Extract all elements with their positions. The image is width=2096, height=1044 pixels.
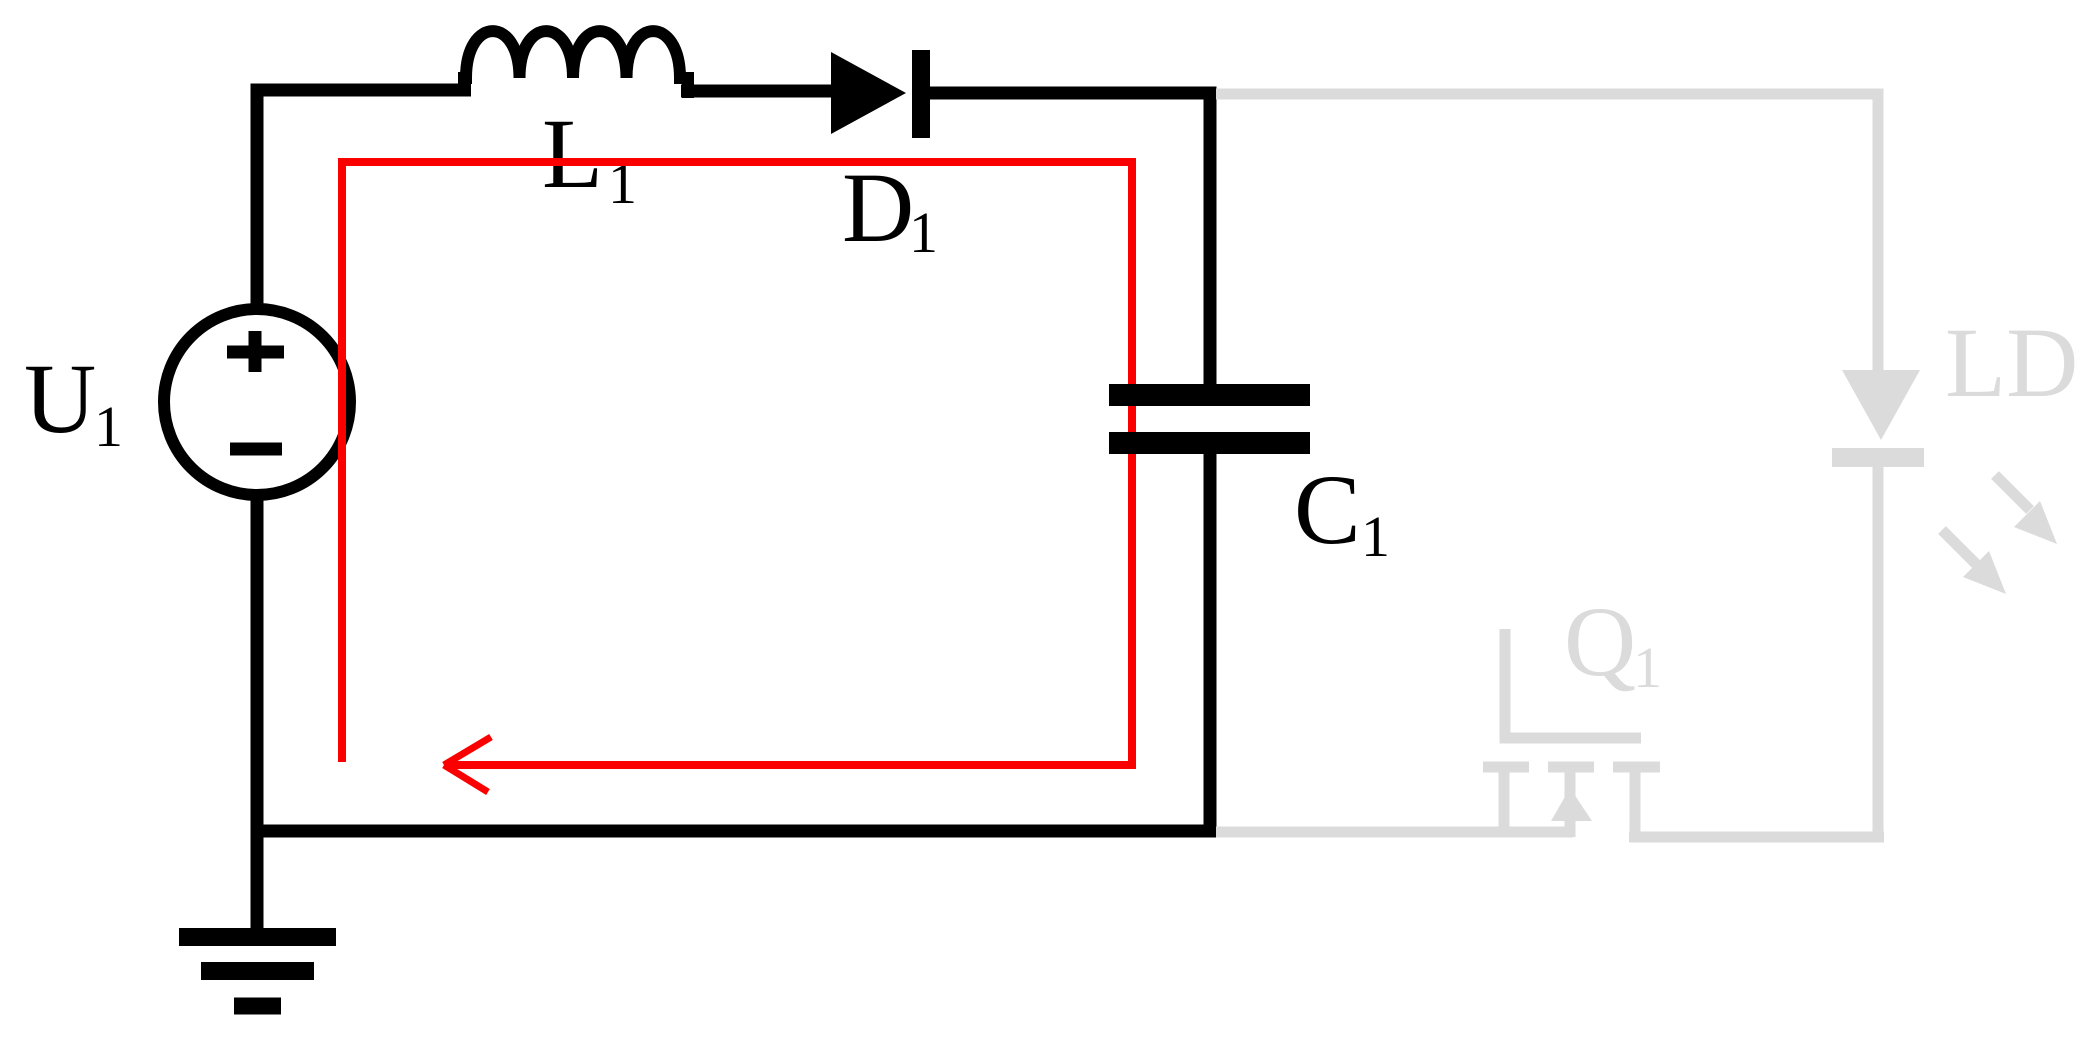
wire [251, 492, 264, 937]
transistor Q1 [1483, 629, 1660, 841]
wire [1216, 94, 1878, 371]
label C1 [1294, 454, 1390, 569]
svg-text:D: D [842, 152, 914, 263]
svg-text:1: 1 [94, 394, 123, 459]
wire [1873, 467, 1884, 842]
current loop [342, 162, 1132, 792]
voltage source U1 [164, 309, 350, 495]
wire [681, 85, 834, 98]
wire [928, 93, 1210, 390]
wire [257, 90, 471, 312]
svg-text:C: C [1294, 454, 1361, 565]
diode D1 [831, 50, 930, 138]
ground [179, 937, 336, 1006]
svg-text:U: U [24, 343, 96, 454]
svg-text:1: 1 [1633, 635, 1662, 700]
wire [1216, 827, 1573, 838]
label Q1 [1564, 586, 1662, 700]
svg-text:Q: Q [1564, 586, 1636, 697]
label U1 [24, 343, 123, 459]
svg-text:1: 1 [909, 200, 938, 265]
capacitor C1 [1109, 395, 1310, 443]
laser diode LD [1832, 370, 1924, 467]
svg-text:1: 1 [1361, 504, 1390, 569]
label D1 [842, 152, 938, 265]
label L1 [542, 98, 637, 216]
light emission arrows [1942, 475, 2057, 594]
inductor L1 [464, 31, 688, 98]
wire [251, 448, 1210, 831]
svg-text:LD: LD [1945, 307, 2078, 418]
wire [1629, 832, 1884, 843]
svg-text:L: L [542, 98, 603, 209]
